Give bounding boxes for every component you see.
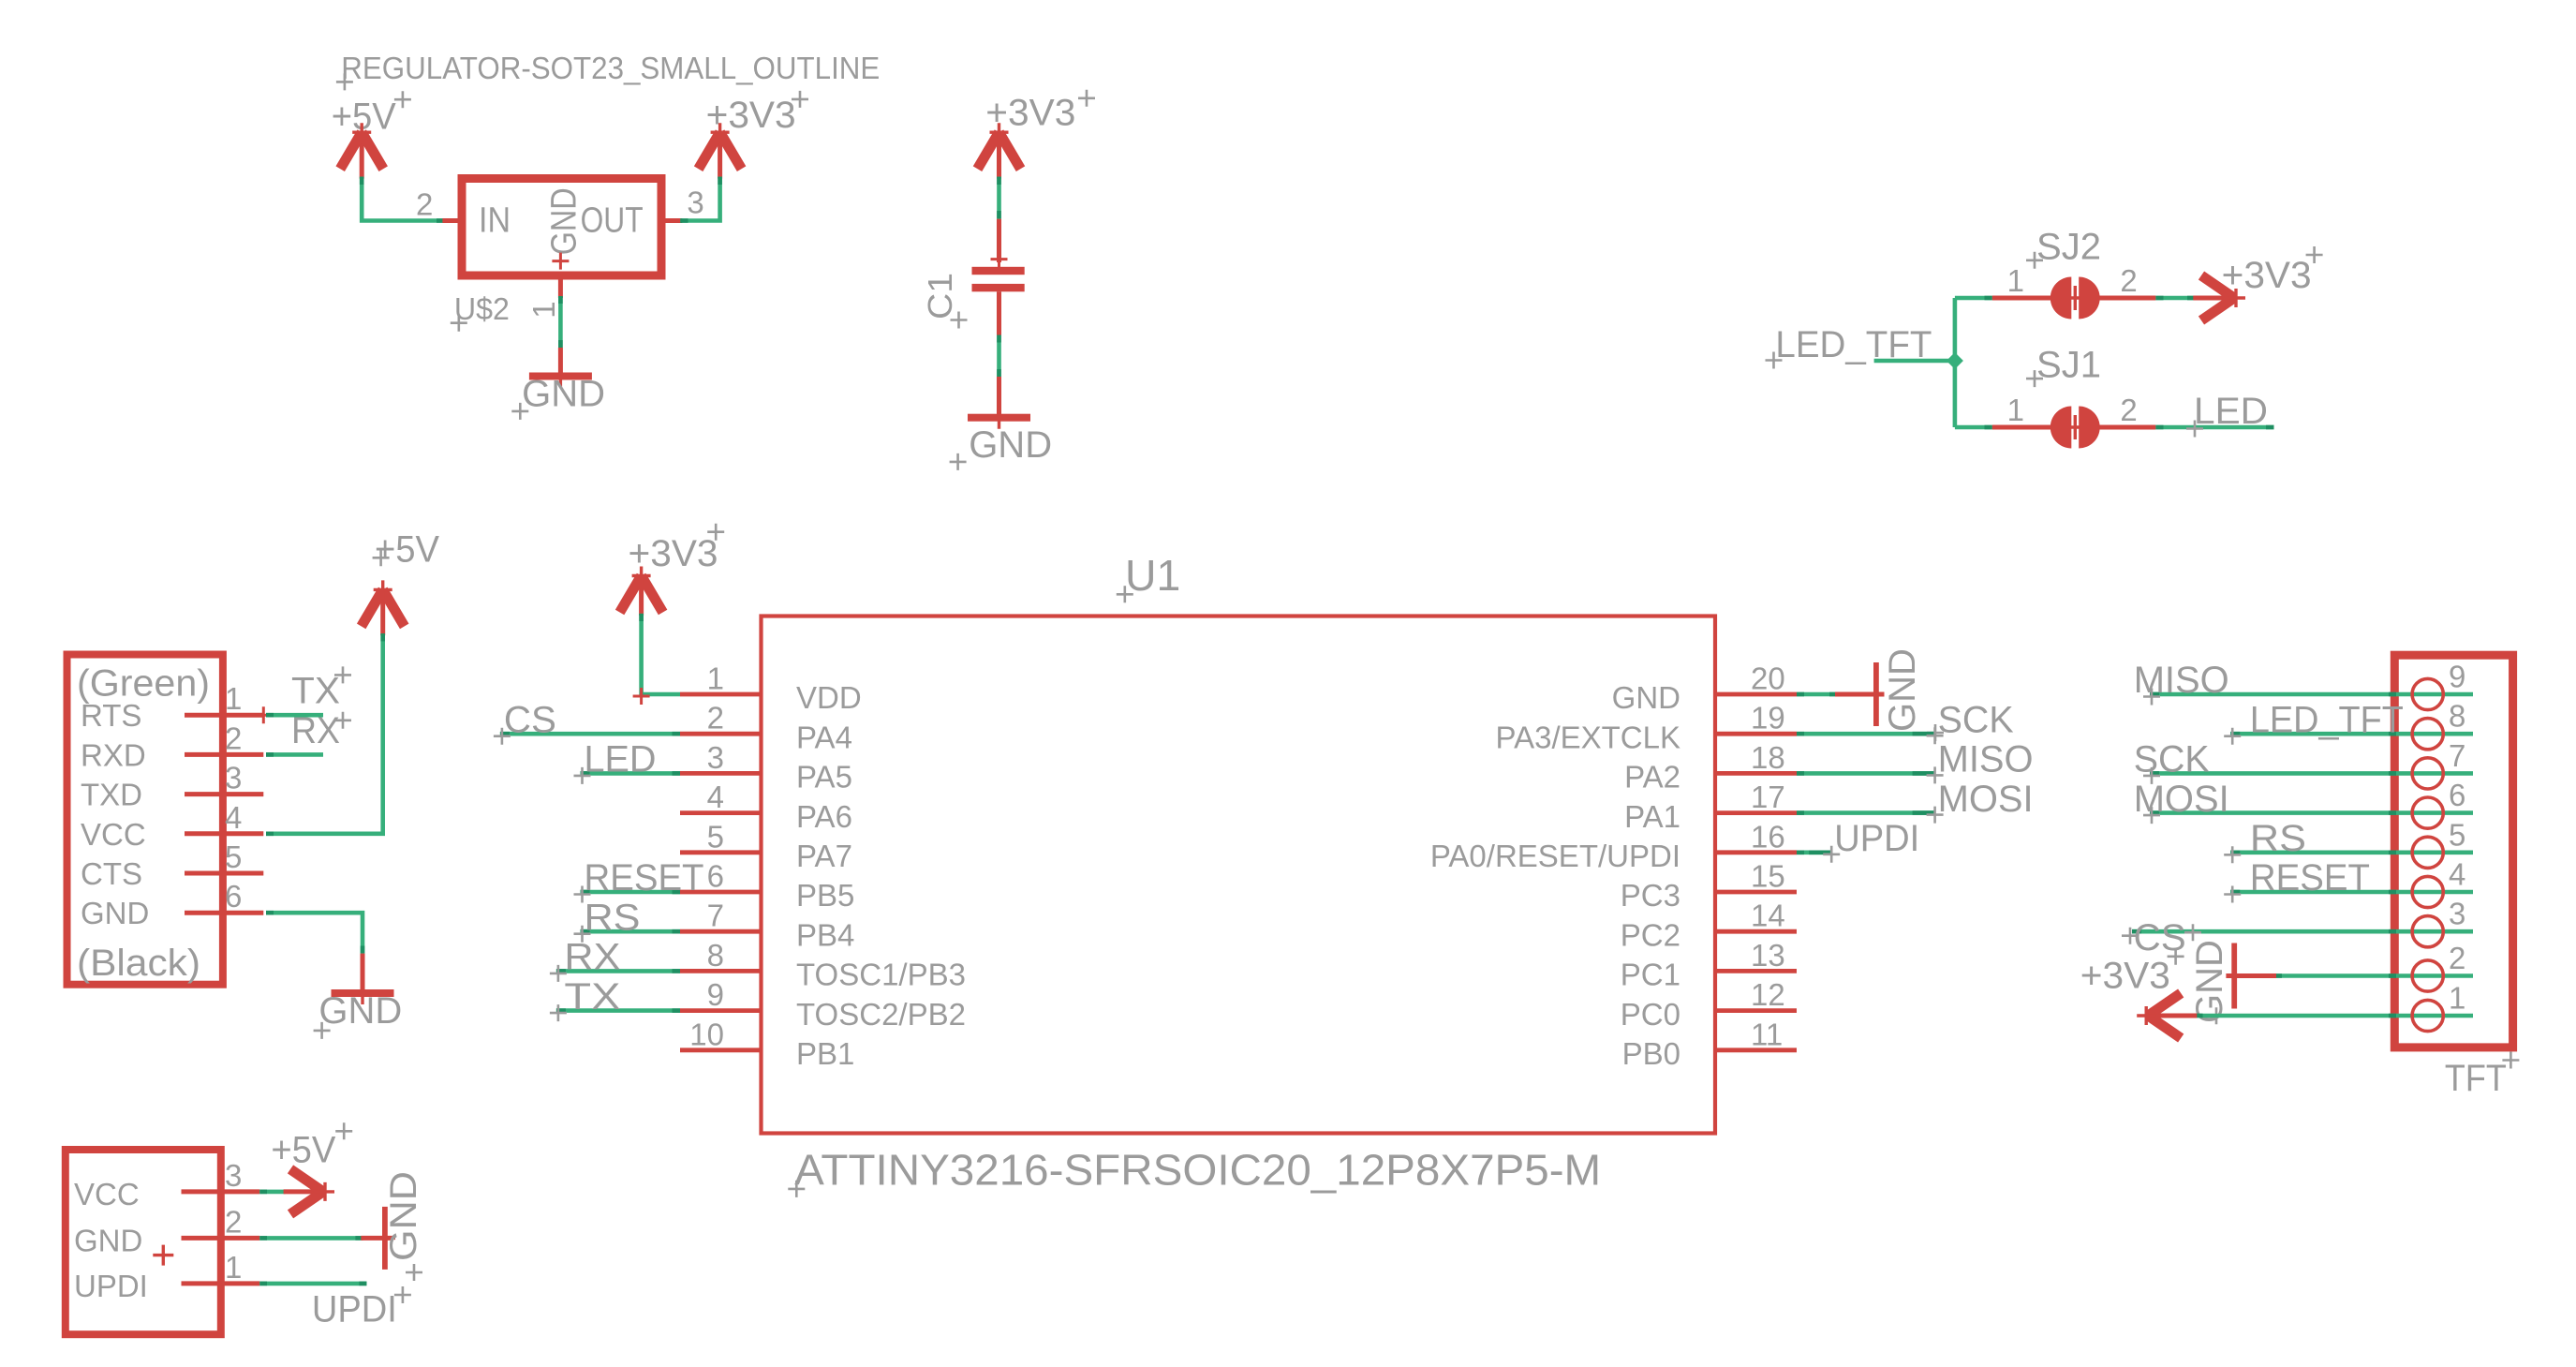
svg-text:RS: RS [585, 897, 641, 938]
svg-text:GND: GND [969, 424, 1052, 466]
svg-text:2: 2 [225, 1204, 242, 1239]
svg-text:MISO: MISO [1938, 739, 2034, 780]
svg-text:LED: LED [2194, 391, 2268, 432]
svg-text:19: 19 [1751, 701, 1785, 736]
svg-text:MOSI: MOSI [1938, 779, 2034, 820]
U1 pin 19 (PA3/EXTCLK) [1716, 732, 1797, 736]
svg-text:GND: GND [383, 1171, 424, 1261]
svg-text:2: 2 [2449, 941, 2465, 975]
U1 pin 1 (VDD) [680, 692, 761, 697]
svg-text:PC0: PC0 [1621, 997, 1680, 1032]
wire VCC to +5V [259, 1190, 285, 1195]
wire UPDI net [259, 1282, 366, 1286]
svg-text:8: 8 [2449, 699, 2465, 734]
svg-text:CS: CS [504, 699, 556, 740]
svg-text:1: 1 [225, 1250, 242, 1285]
solder jumper SJ1 [1992, 425, 2051, 430]
op-amp/IC U1 ATTINY3216 box [762, 617, 1716, 1134]
supply +3V3 (right-pointing, SJ2) [2193, 296, 2234, 301]
wire CS [500, 732, 680, 736]
TFT pin 7 pad [2412, 758, 2443, 789]
svg-text:20: 20 [1751, 661, 1785, 696]
svg-text:17: 17 [1751, 780, 1785, 814]
svg-text:TFT: TFT [2445, 1058, 2507, 1099]
wire SJ2 pin2 to +3V3 [2155, 296, 2195, 301]
supply +5V (right-pointing) [284, 1189, 323, 1194]
svg-text:6: 6 [225, 879, 242, 914]
svg-text:CS: CS [2134, 917, 2186, 958]
svg-text:+5V: +5V [375, 529, 439, 571]
regulator pin 3 (OUT) [661, 218, 682, 223]
regulator pin 2 (IN) [442, 218, 466, 223]
wire U1 pin20 to GND [1797, 692, 1837, 697]
solder jumper SJ2 [1992, 296, 2051, 301]
wire +5V to regulator IN pin 2 [362, 177, 444, 221]
svg-text:GND: GND [318, 990, 402, 1032]
FTDI pin 3 (TXD) [185, 792, 263, 796]
svg-text:13: 13 [1751, 938, 1785, 973]
supply +3V3 (left-pointing, TFT) [2148, 1014, 2197, 1018]
FTDI pin 1 (RTS) [185, 713, 263, 718]
svg-text:4: 4 [225, 800, 242, 835]
wire CS to TFT [2132, 929, 2473, 934]
svg-text:PA5: PA5 [796, 760, 852, 795]
svg-text:+3V3: +3V3 [2222, 255, 2312, 296]
svg-text:RTS: RTS [81, 698, 141, 733]
svg-text:PA3/EXTCLK: PA3/EXTCLK [1496, 720, 1680, 754]
U1 pin 18 (PA2) [1716, 771, 1797, 776]
svg-text:VCC: VCC [74, 1177, 140, 1211]
TFT pin 5 pad [2412, 837, 2443, 868]
svg-text:LED_TFT: LED_TFT [2250, 699, 2404, 740]
ground symbol (UPDI conn, rotated) [361, 1236, 392, 1241]
wire SCK to TFT [2150, 771, 2473, 776]
svg-text:TX: TX [564, 976, 620, 1018]
FTDI pin 6 (GND) [185, 911, 263, 915]
svg-text:PA2: PA2 [1624, 760, 1680, 795]
U1 pin 4 (PA6) [680, 810, 761, 815]
svg-text:15: 15 [1751, 859, 1785, 894]
svg-text:SCK: SCK [1938, 699, 2014, 740]
wire regulator OUT to +3V3 [680, 177, 719, 221]
svg-text:RESET: RESET [585, 857, 704, 899]
svg-text:GND: GND [81, 896, 149, 930]
svg-text:2: 2 [416, 187, 433, 222]
wire RX [556, 969, 680, 973]
svg-text:TOSC1/PB3: TOSC1/PB3 [796, 958, 966, 992]
capacitor C1 [997, 219, 1001, 262]
wire RS to TFT [2230, 850, 2473, 854]
svg-text:8: 8 [707, 938, 724, 973]
svg-text:1: 1 [225, 681, 242, 716]
svg-text:UPDI: UPDI [74, 1269, 148, 1303]
svg-text:2: 2 [2120, 393, 2137, 427]
svg-text:MOSI: MOSI [2134, 779, 2229, 820]
svg-text:4: 4 [2449, 857, 2465, 892]
svg-text:U$2: U$2 [454, 291, 510, 326]
TFT pin 6 pad [2412, 797, 2443, 828]
regulator pin 1 (GND, bottom) [558, 275, 563, 298]
U1 pin 15 (PC3) [1716, 890, 1797, 895]
wire GND conn to ground [259, 1236, 363, 1241]
svg-text:6: 6 [707, 859, 724, 894]
svg-text:TOSC2/PB2: TOSC2/PB2 [796, 997, 966, 1032]
U1 pin 14 (PC2) [1716, 929, 1797, 934]
svg-text:C1: C1 [921, 273, 959, 319]
svg-text:6: 6 [2449, 778, 2465, 812]
svg-text:1: 1 [2007, 263, 2024, 298]
wire TX stub [266, 713, 323, 718]
svg-text:3: 3 [225, 1158, 242, 1193]
U1 pin 12 (PC0) [1716, 1008, 1797, 1013]
wire SCK [1797, 732, 1935, 736]
ground symbol (U1 pin20, rotated) [1835, 692, 1885, 697]
svg-text:GND: GND [1882, 648, 1923, 732]
ground symbol (TFT pin2, rotated) [2226, 973, 2276, 978]
svg-text:GND: GND [2189, 940, 2230, 1023]
svg-text:9: 9 [2449, 660, 2465, 694]
svg-text:LED: LED [585, 739, 657, 780]
svg-text:RESET: RESET [2250, 857, 2370, 899]
junction (LED_TFT node) [1947, 352, 1963, 369]
svg-text:3: 3 [707, 740, 724, 775]
svg-text:RX: RX [564, 937, 620, 978]
wire LED_TFT net [1874, 359, 1955, 364]
svg-text:OUT: OUT [581, 201, 644, 240]
svg-text:1: 1 [2007, 393, 2024, 427]
U1 pin 8 (TOSC1/PB3) [680, 969, 761, 973]
svg-text:3: 3 [2449, 897, 2465, 931]
FTDI pin 5 (CTS) [185, 871, 263, 876]
wire TX [556, 1008, 680, 1013]
UPDI connector pin 3 (VCC) [182, 1189, 260, 1194]
value marker [153, 1245, 173, 1266]
U1 pin 7 (PB4) [680, 929, 761, 934]
wire FTDI GND to ground [266, 913, 363, 953]
wire MOSI to TFT [2150, 810, 2473, 815]
svg-text:+5V: +5V [271, 1130, 335, 1171]
svg-text:RX: RX [291, 710, 340, 751]
svg-text:PC2: PC2 [1621, 917, 1680, 952]
svg-text:2: 2 [707, 701, 724, 736]
svg-text:REGULATOR-SOT23_SMALL_OUTLINE: REGULATOR-SOT23_SMALL_OUTLINE [341, 51, 880, 85]
svg-text:3: 3 [687, 185, 703, 219]
wire regulator pin1 to GND [558, 296, 563, 348]
svg-text:PB5: PB5 [796, 878, 854, 913]
TFT pin 4 pad [2412, 876, 2443, 907]
wire RX stub [266, 752, 323, 757]
U1 pin 5 (PA7) [680, 850, 761, 854]
U1 pin 10 (PB1) [680, 1048, 761, 1052]
wire +3V3 to U1 pin 1 [642, 614, 680, 694]
wire RESET [581, 890, 681, 895]
svg-text:RXD: RXD [81, 737, 146, 772]
FTDI pin 4 (VCC) [185, 831, 263, 836]
svg-text:CTS: CTS [81, 856, 142, 891]
UPDI connector pin 2 (GND) [182, 1236, 260, 1241]
TFT pin 9 pad [2412, 678, 2443, 709]
U1 pin 6 (PB5) [680, 890, 761, 895]
svg-text:RS: RS [2250, 818, 2306, 859]
wire C1 pin 2 to GND [997, 335, 1001, 378]
svg-text:TX: TX [291, 671, 340, 712]
svg-text:GND: GND [545, 187, 585, 255]
wire RS [581, 929, 681, 934]
svg-text:PC3: PC3 [1621, 878, 1680, 913]
wire TFT pin2 to GND [2274, 973, 2473, 978]
wire LED [581, 771, 681, 776]
U1 pin 9 (TOSC2/PB2) [680, 1008, 761, 1013]
svg-text:PA6: PA6 [796, 799, 852, 834]
svg-text:TXD: TXD [81, 778, 142, 812]
svg-text:GND: GND [522, 374, 605, 415]
U1 pin 20 (GND) [1716, 692, 1797, 697]
TFT pin 8 pad [2412, 719, 2443, 750]
svg-text:PA4: PA4 [796, 720, 852, 754]
FTDI pin 2 (RXD) [185, 752, 263, 757]
wire MISO [1797, 771, 1935, 776]
svg-text:ATTINY3216-SFRSOIC20_12P8X7P5-: ATTINY3216-SFRSOIC20_12P8X7P5-M [794, 1146, 1601, 1195]
svg-text:5: 5 [2449, 817, 2465, 852]
svg-text:14: 14 [1751, 899, 1785, 933]
wire LED_TFT to TFT [2230, 732, 2473, 736]
svg-text:SCK: SCK [2134, 739, 2210, 780]
svg-text:SJ1: SJ1 [2036, 345, 2101, 386]
svg-text:12: 12 [1751, 977, 1785, 1012]
svg-text:U1: U1 [1125, 551, 1180, 600]
regulator U$2 box [462, 179, 661, 276]
UPDI connector pin 1 (UPDI) [182, 1281, 260, 1285]
svg-text:GND: GND [1612, 680, 1680, 715]
svg-text:5: 5 [225, 840, 242, 874]
svg-text:GND: GND [74, 1223, 142, 1257]
svg-text:SJ2: SJ2 [2036, 226, 2101, 267]
svg-text:7: 7 [707, 899, 724, 933]
svg-text:PB0: PB0 [1622, 1036, 1680, 1071]
svg-text:PB1: PB1 [796, 1036, 854, 1071]
connector TFT box [2394, 655, 2512, 1048]
ground symbol (regulator) [529, 373, 592, 380]
wire MOSI [1797, 810, 1935, 815]
svg-text:PC1: PC1 [1621, 958, 1680, 992]
svg-text:16: 16 [1751, 819, 1785, 854]
connector J (FTDI) box [67, 655, 223, 985]
TFT pin 1 pad [2412, 1000, 2443, 1031]
U1 pin 11 (PB0) [1716, 1048, 1797, 1052]
wire RESET to TFT [2230, 890, 2473, 895]
svg-text:(Black): (Black) [77, 943, 200, 984]
svg-text:PA7: PA7 [796, 839, 852, 873]
svg-text:VDD: VDD [796, 680, 862, 715]
TFT pin 3 pad [2412, 916, 2443, 947]
wire VCC to +5V [266, 633, 383, 834]
U1 pin 2 (PA4) [680, 732, 761, 736]
svg-text:11: 11 [1751, 1017, 1783, 1051]
connector UPDI box [66, 1150, 221, 1334]
svg-text:IN: IN [479, 201, 511, 240]
svg-text:2: 2 [225, 721, 242, 755]
U1 pin 16 (PA0/RESET/UPDI) [1716, 850, 1797, 854]
svg-text:7: 7 [2449, 738, 2465, 773]
U1 pin 13 (PC1) [1716, 969, 1797, 973]
svg-text:PA1: PA1 [1624, 799, 1680, 834]
ground symbol (FTDI) [332, 989, 394, 997]
svg-text:MISO: MISO [2134, 660, 2229, 701]
TFT pin 2 pad [2412, 960, 2443, 991]
svg-text:UPDI: UPDI [1834, 818, 1919, 859]
svg-text:1: 1 [707, 661, 724, 696]
svg-text:1: 1 [526, 301, 561, 318]
svg-text:2: 2 [2120, 263, 2137, 298]
svg-text:10: 10 [689, 1017, 724, 1051]
svg-text:9: 9 [707, 977, 724, 1012]
svg-text:4: 4 [707, 780, 724, 814]
svg-text:PA0/RESET/UPDI: PA0/RESET/UPDI [1430, 839, 1680, 873]
svg-text:18: 18 [1751, 740, 1785, 775]
wire SJ1 pin2 to LED [2155, 425, 2273, 430]
U1 pin 17 (PA1) [1716, 810, 1797, 815]
svg-text:3: 3 [225, 761, 242, 795]
svg-text:+3V3: +3V3 [2080, 956, 2170, 997]
wire +3V3 to C1 pin 1 [997, 177, 1001, 219]
svg-text:PB4: PB4 [796, 917, 854, 952]
U1 pin 3 (PA5) [680, 771, 761, 776]
svg-text:VCC: VCC [81, 817, 146, 852]
wire TFT pin1 to +3V3 [2195, 1014, 2473, 1018]
wire MISO to TFT [2150, 692, 2473, 697]
wire UPDI [1797, 850, 1831, 854]
svg-text:1: 1 [2449, 981, 2465, 1016]
svg-text:UPDI: UPDI [312, 1288, 397, 1330]
svg-text:5: 5 [707, 819, 724, 854]
ground symbol (C1) [968, 414, 1030, 422]
